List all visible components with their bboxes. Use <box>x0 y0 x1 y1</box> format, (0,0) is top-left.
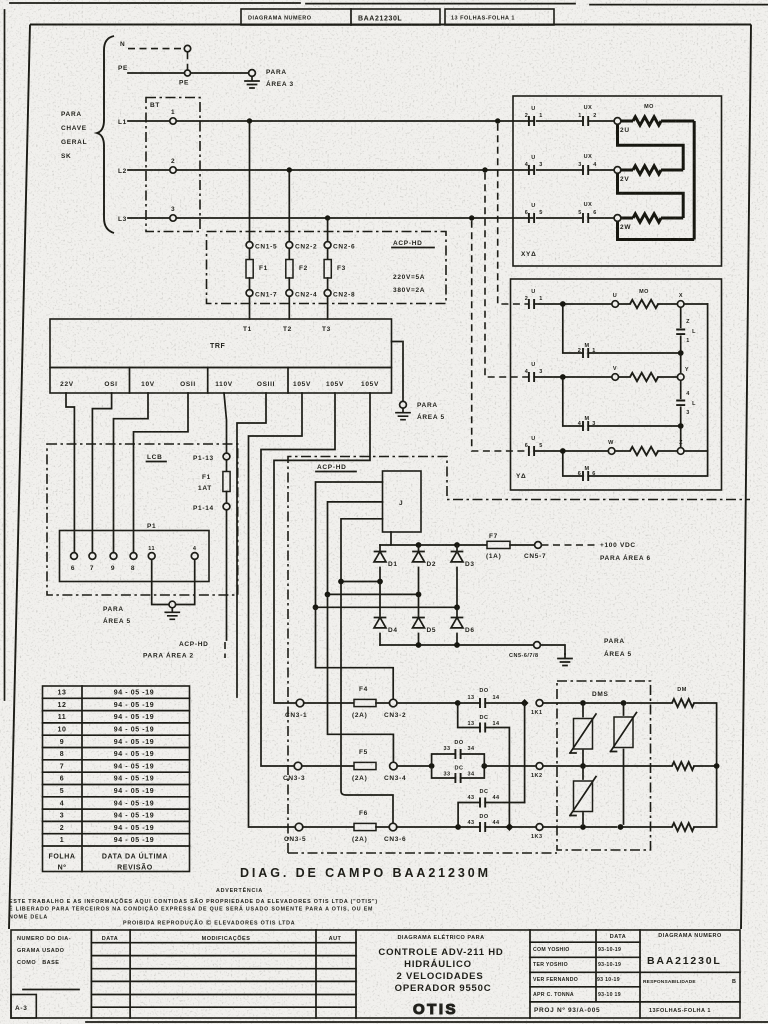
resistor MO yd row1 <box>630 300 658 308</box>
junction diamond row A <box>521 699 529 707</box>
terminal X <box>677 301 684 308</box>
advertencia block <box>9 886 378 927</box>
wire 1K1 to DMS <box>543 702 672 704</box>
wire AC3 to CN3-2 <box>316 607 394 699</box>
bus AC2 (J-D2) <box>328 593 419 595</box>
fuse F3 <box>324 260 331 279</box>
junction DMS B1 <box>580 763 586 769</box>
box BT (dashed) <box>146 98 200 232</box>
wire aux M row2 <box>563 380 681 426</box>
contact U 6-5 row3 <box>529 213 534 223</box>
junction DM right <box>714 763 720 769</box>
wire D1 mid to D4 <box>379 582 381 646</box>
terminal CN3-4 <box>390 762 398 770</box>
wire box1 row1 <box>529 120 614 122</box>
wire L1 branch dashed to Y-delta row1 <box>498 124 529 304</box>
fuse F6 <box>354 823 376 830</box>
fuse F1 1AT <box>223 472 230 492</box>
terminal CN2-4 <box>286 290 293 297</box>
wire 2U resistor to right loop <box>661 120 694 123</box>
junction yd row3 <box>560 448 566 454</box>
terminal CN2-6 <box>324 242 331 249</box>
wire tap OS II to P1-8 <box>134 393 189 553</box>
junction row A <box>455 700 461 706</box>
junction L3/CN2-6 <box>325 215 330 220</box>
contact M 2-1 aux1 <box>583 348 588 358</box>
terminal CN3-5 <box>295 823 303 831</box>
varistor DMS V3 <box>582 766 584 824</box>
box XY-delta motor windings <box>513 96 722 266</box>
junction Y cap bottom <box>678 423 684 429</box>
terminal W <box>608 448 615 455</box>
terminal CN1-5 <box>246 242 253 249</box>
junction row B left <box>429 763 435 769</box>
wire L1 to CN1-5 <box>249 124 251 242</box>
wire L3 to CN2-6 <box>327 221 329 242</box>
wire D2 mid to D5 <box>418 594 420 645</box>
wire L2 <box>128 169 529 171</box>
contact U 4-3 yd row2 <box>529 372 534 382</box>
wire yd row3 <box>534 450 708 452</box>
wire tap 105Va to CN3-5 <box>249 393 303 827</box>
connector P1 <box>60 531 210 582</box>
bus AC3 (J-D3) <box>316 606 458 608</box>
ground P1 <box>165 608 179 620</box>
wire D3 mid to D6 <box>456 607 458 645</box>
junction L2/CN2-2 <box>287 167 292 172</box>
terminal CN3-6 <box>389 823 397 831</box>
wire box1 row2 <box>529 169 614 171</box>
contact U 2-1 yd row1 <box>529 299 534 309</box>
box ACP-HD center boundary (dash-dot) <box>288 457 750 854</box>
fuse F5 <box>354 762 376 769</box>
wire right loop vertical <box>693 121 696 240</box>
wire F7 to CN5-7 <box>510 544 535 546</box>
junction +bus D3 <box>454 542 460 548</box>
junction DMS C2 <box>618 824 624 830</box>
bus bridge positive <box>380 544 487 546</box>
fuse F7 <box>487 541 510 548</box>
terminal ground P1 <box>169 601 176 608</box>
terminal 2W <box>614 215 621 222</box>
wire AC1 to CN3-6 <box>341 582 393 824</box>
terminal CN2-8 <box>324 290 331 297</box>
box DMS (dash-dot) <box>557 681 651 850</box>
wire aux M row3 <box>563 451 708 476</box>
diode D3 <box>456 545 458 604</box>
wire 2V drop / staircase 2 <box>618 173 684 218</box>
wire DM rowC right <box>694 769 717 827</box>
terminal CN2-2 <box>286 242 293 249</box>
contact U 2-1 row1 <box>529 116 534 126</box>
fuse F1 <box>246 260 253 279</box>
contact UX 1-2 row1 <box>583 116 588 126</box>
wire J pin1 to D3 bus <box>316 482 383 604</box>
box J <box>383 471 422 532</box>
wire 2W drop to bottom loop <box>618 221 695 239</box>
wire 2W resistor right <box>661 217 683 220</box>
resistor DM rowA <box>672 699 694 707</box>
wire CN2-2 to F2 <box>288 248 290 259</box>
wire tap 105Vb to CN3-3 <box>261 393 335 766</box>
bus bridge negative <box>380 644 534 646</box>
wire J pin3 to D1 bus <box>341 519 383 578</box>
A-3 box <box>11 995 36 1019</box>
wire CN3-4 to parallel contacts <box>397 765 431 767</box>
terminal para area 5 <box>400 401 407 408</box>
branch DO 33-34 <box>432 754 485 766</box>
resistor yd row2 <box>630 373 658 381</box>
wire tap 10V to P1-9 <box>114 393 149 553</box>
wire CN5-7 +100VDC (dashed) <box>542 544 598 546</box>
junction row B right <box>481 763 487 769</box>
wire L2 to CN2-2 <box>288 173 290 242</box>
terminal Z <box>677 448 684 455</box>
box Y-delta <box>511 279 722 490</box>
wire J pin2 to D2 bus <box>328 502 383 591</box>
contact M 6-6 aux3 <box>583 471 588 481</box>
wire tap OS I to P1-7 <box>92 393 111 553</box>
resistor DM rowB <box>672 762 694 770</box>
bus AC1 (J-D1) <box>341 581 380 583</box>
pin P1-7 <box>89 553 96 560</box>
wire 1K3 to DMS <box>543 826 672 828</box>
junction L2 dashed branch <box>482 167 487 172</box>
capacitor L1 on X column <box>680 307 682 350</box>
wire CN5 to ground <box>541 645 566 654</box>
pin P1-4 <box>191 553 198 560</box>
header box: DIAGRAMA NUMERO <box>241 9 440 25</box>
wire Y cap to Z <box>680 426 682 448</box>
wire F2 to CN2-4 <box>288 278 290 290</box>
revision table <box>43 686 190 872</box>
wire tap OS III <box>237 393 266 697</box>
wire CN2-6 to F3 <box>327 248 329 259</box>
diode D1 <box>379 545 381 578</box>
diode D6 <box>451 618 463 628</box>
terminal Y <box>677 374 684 381</box>
junction X cap bottom <box>678 350 684 356</box>
page top edge line <box>10 3 768 5</box>
varistor DMS V2 <box>623 703 625 824</box>
wire yd row1 <box>534 303 708 305</box>
wire X right loop down to Z <box>707 304 709 451</box>
terminal P1-14 <box>223 503 230 510</box>
junction DMS C1 <box>580 824 586 830</box>
terminal P1-13 <box>223 453 230 460</box>
terminal V <box>612 374 619 381</box>
wire box1 row3 <box>529 217 614 219</box>
junction DMS A1 <box>580 700 586 706</box>
wire L3 <box>128 217 529 219</box>
wire DM rowA right <box>694 703 717 763</box>
junction L3 dashed branch <box>469 215 474 220</box>
branch DC 43-44 rowC <box>458 803 524 828</box>
wire J bottom to +bus <box>390 532 392 545</box>
terminal U yd <box>612 301 619 308</box>
resistor MO 2V <box>621 169 633 172</box>
pin P1-11 <box>148 553 155 560</box>
contact DO 43-44 rowC <box>480 822 485 832</box>
diode D2 <box>418 545 420 591</box>
pin P1-8 <box>130 553 137 560</box>
wire F1 to CN1-7 <box>249 278 251 290</box>
junction row C <box>455 824 461 830</box>
title block rows left region <box>91 943 356 1008</box>
wire row B to 1K2 <box>484 765 536 767</box>
branch DC 33-34 <box>432 766 485 778</box>
wire CN3-5 to F6 <box>303 826 354 828</box>
contact BT-3 <box>170 215 176 221</box>
wire CN3-6 to DO contact <box>376 826 536 828</box>
box ACP-HD fuses (dash-dot) <box>207 232 447 304</box>
diode D4 <box>374 618 386 628</box>
resistor MO 2U <box>621 120 633 123</box>
resistor DM rowC <box>672 823 694 831</box>
wire CN3-1 to F4 <box>304 702 354 704</box>
ground PE <box>245 77 259 89</box>
wire DM rowB right <box>694 765 717 767</box>
resistor MO 2W <box>621 217 633 220</box>
title block columns <box>91 930 640 1018</box>
contact U 6-5 yd row3 <box>529 446 534 456</box>
approvals rows <box>530 930 640 1002</box>
terminal 1K2 <box>536 763 543 770</box>
contact UX 3-4 row2 <box>583 165 588 175</box>
contact BT-2 <box>170 167 176 173</box>
junction DMS A2 <box>621 700 627 706</box>
wire N to PE (dashed) <box>187 52 189 69</box>
wire PE <box>128 72 249 74</box>
title block frame <box>11 930 740 1018</box>
wire L1 <box>128 120 529 122</box>
terminal CN5-7 <box>535 542 542 549</box>
contact UX 5-6 row3 <box>583 213 588 223</box>
wire CN1-7 to TRF T1 <box>249 296 251 319</box>
wire CN3-2 to DO contact <box>376 702 522 704</box>
transformer TRF <box>50 319 392 368</box>
junction L1/CN1-5 <box>247 118 252 123</box>
resistor yd row3 <box>630 447 658 455</box>
terminal 2U <box>614 118 621 125</box>
wire AC2 to CN3-4 <box>328 594 394 762</box>
brace PARA CHAVE GERAL SK <box>97 36 114 233</box>
wire L2 branch dashed to Y-delta row2 <box>485 173 529 377</box>
terminal CN3-2 <box>389 699 397 707</box>
wire 2U drop / staircase 1 <box>618 124 684 170</box>
wire tap 110V to P1-13 <box>224 393 227 453</box>
contact U 4-3 row2 <box>529 165 534 175</box>
junction -bus D5 <box>416 642 422 648</box>
terminal CN3-3 <box>294 762 302 770</box>
wire N (dashed) <box>128 48 183 50</box>
pin P1-9 <box>110 553 117 560</box>
contact DC 43-44 rowC <box>480 798 485 808</box>
wire CN3-3 to F5 <box>302 765 354 767</box>
wire L3 branch dashed to Y-delta row3 <box>472 221 529 451</box>
pin P1-6 <box>71 553 78 560</box>
wire F3 to CN2-8 <box>327 278 329 290</box>
wire 1K2 to DMS <box>543 765 672 767</box>
wire CN1-5 to F1 <box>249 248 251 259</box>
wire P1-13 to F1 <box>226 460 228 472</box>
capacitor L3 on Y column <box>680 380 682 423</box>
terminal N <box>184 45 190 51</box>
junction diamond row C <box>505 823 513 831</box>
page left edge line <box>4 10 6 700</box>
contact BT-1 <box>170 118 176 124</box>
scan noise overlay <box>0 0 1 1</box>
junction +bus D2 <box>416 542 422 548</box>
page bottom edge line <box>86 1021 768 1023</box>
junction -bus D6 <box>454 642 460 648</box>
terminal PE to area 3 <box>249 70 256 77</box>
diode D5 <box>413 618 425 628</box>
boundary bottom (dash-dot) <box>288 852 557 854</box>
wire TRF right to area 5 ground <box>392 342 404 402</box>
terminal CN1-7 <box>246 290 253 297</box>
wire CN2-8 to TRF T3 <box>327 296 329 319</box>
ground TRF area 5 <box>396 408 410 420</box>
varistor DMS V1 <box>582 703 584 763</box>
junction PE <box>185 70 191 76</box>
fuse F4 <box>354 699 376 706</box>
wire P1-14 down to ACP-HD area 2 <box>226 510 228 640</box>
wire P1-11/P1-4 to ground <box>152 559 195 604</box>
junction yd row1 <box>560 301 566 307</box>
junction yd row2 <box>560 374 566 380</box>
contact DC 13-14 rowA <box>480 723 485 733</box>
wire aux M row1 <box>563 307 681 374</box>
wire CN2-4 to TRF T2 <box>288 296 290 319</box>
terminal CN3-1 <box>296 699 304 707</box>
box LCB (dash-dot) <box>47 444 238 595</box>
contact M 4-3 aux2 <box>583 421 588 431</box>
wire yd row2 <box>534 376 677 378</box>
terminal CN5-6/7/8 <box>534 642 541 649</box>
wire J2 diamond to row C DC branch <box>524 706 526 803</box>
wire tap 22V to P1-6 <box>66 393 74 553</box>
terminal 1K3 <box>536 824 543 831</box>
wire F1 to P1-14 <box>226 492 228 504</box>
junction L1 dashed branch <box>495 118 500 123</box>
header box: 13 FOLHAS-FOLHA 1 <box>445 9 554 25</box>
terminal 2V <box>614 167 621 174</box>
ground CN5 area 5 <box>558 654 572 666</box>
fuse F2 <box>286 260 293 279</box>
contact DO 13-14 rowA <box>480 698 485 708</box>
terminal 1K1 <box>536 700 543 707</box>
wire tap 105Vc to CN3-1 <box>274 393 370 703</box>
wire 2V resistor right <box>661 169 683 172</box>
branch DC rowA <box>458 703 510 824</box>
